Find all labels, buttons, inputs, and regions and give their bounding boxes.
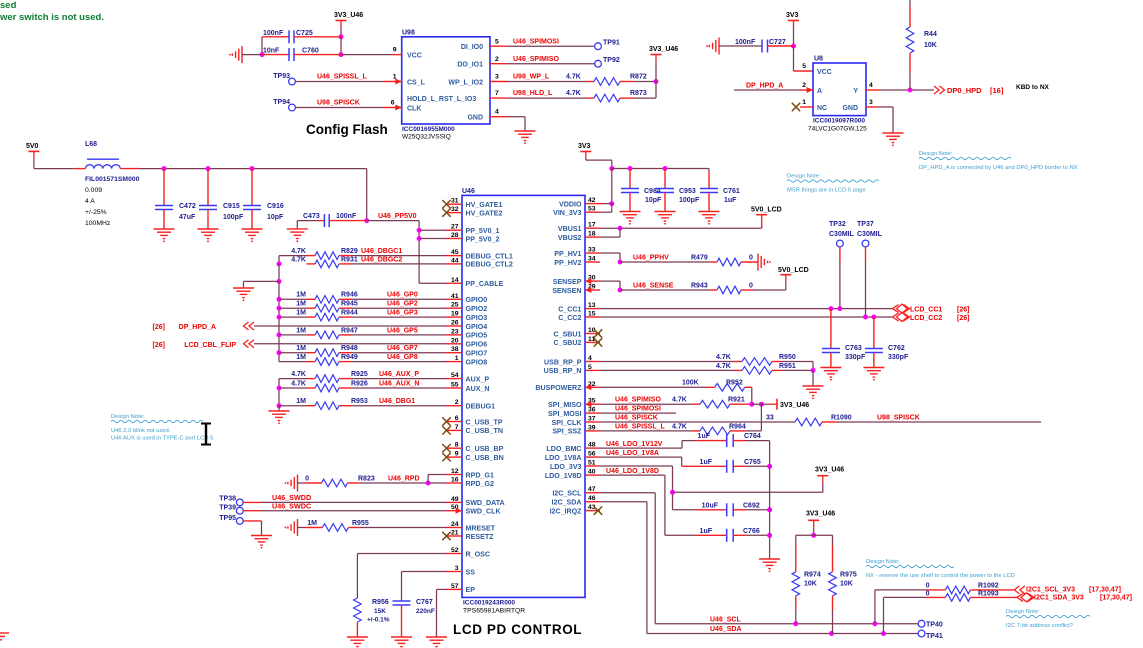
resistor R956 [354,598,362,622]
ic U8 box [813,63,866,116]
svg-text:15: 15 [588,311,596,318]
svg-text:36: 36 [588,407,596,414]
testpoint TP92 [595,60,602,67]
wire bus [278,281,280,361]
svg-text:C692: C692 [743,503,760,510]
svg-text:GPIO6: GPIO6 [466,341,488,349]
svg-text:TP40: TP40 [926,622,943,629]
svg-text:330pF: 330pF [888,354,909,361]
wire cap gnd bus [769,441,771,559]
svg-text:U46_LDO_1V8D: U46_LDO_1V8D [606,468,659,475]
junction [871,315,876,320]
testpoint TP32 [837,240,844,247]
pin 54 AUX_P [446,378,462,380]
svg-text:100pF: 100pF [679,197,700,204]
svg-text:U46_SPISSL_L: U46_SPISSL_L [317,74,368,81]
svg-text:R1090: R1090 [831,414,852,421]
svg-text:56: 56 [588,451,596,458]
net U98_SPISCK [838,421,1041,423]
pin 5 DI_IO0 [490,45,508,47]
wire pullup rail [796,534,833,536]
svg-text:AUX_N: AUX_N [466,385,490,393]
svg-text:KBD to NX: KBD to NX [1016,84,1050,91]
svg-text:16: 16 [451,477,459,484]
svg-text:Design Note:: Design Note: [787,174,821,180]
junction [908,88,913,93]
pin 28 PP_5V0_2 [446,238,462,240]
svg-text:U46_DBGC2: U46_DBGC2 [361,256,402,263]
svg-text:R829: R829 [341,248,358,255]
svg-text:24: 24 [451,521,459,528]
ground [241,46,243,63]
svg-text:R952: R952 [726,380,743,387]
svg-text:Design Note:: Design Note: [866,559,900,565]
pin 8 C_USB_BP [446,447,462,449]
svg-text:44: 44 [451,257,459,264]
net U46_GP3 [352,316,446,318]
svg-text:9: 9 [393,47,397,54]
resistor R921 [664,403,692,405]
svg-text:34: 34 [588,256,596,263]
svg-text:wer switch is not used.: wer switch is not used. [0,12,104,23]
svg-text:U46 2.0 blink not used.: U46 2.0 blink not used. [111,428,171,434]
pin 33 PP_HV1 [585,252,600,254]
pin 36 SPI_MOSI [585,412,600,414]
pin 51 LDO_3V3 [585,465,600,467]
svg-text:5: 5 [588,364,592,371]
junction [767,464,772,469]
wire [366,169,368,221]
pin 48 LDO_BMC [585,447,600,449]
ground [242,228,263,230]
ground [620,211,641,213]
pin 25 GPIO2 [446,307,462,309]
wire [360,527,446,529]
svg-text:U98_SPISCK: U98_SPISCK [317,100,360,107]
svg-text:C473: C473 [303,213,320,220]
wire 5V0 rail [139,168,367,170]
svg-text:100nF: 100nF [336,213,357,220]
pin 3 WP_L_IO2 [490,81,508,83]
testpoint TP39 [236,507,243,514]
svg-text:R955: R955 [352,520,369,527]
svg-text:20: 20 [451,337,459,344]
junction [670,490,675,495]
svg-text:TP92: TP92 [603,57,620,64]
svg-text:GPIO8: GPIO8 [466,358,488,366]
inductor L68 [74,168,85,170]
svg-text:DI_IO0: DI_IO0 [461,44,483,51]
svg-text:I2C_IRQZ: I2C_IRQZ [550,507,583,515]
junction [837,306,842,311]
svg-text:4: 4 [588,355,592,362]
wire [418,221,420,284]
svg-text:R921: R921 [728,397,745,404]
svg-text:PP_5V0_1: PP_5V0_1 [466,227,500,235]
wire VBUS2 [600,236,620,238]
pin 43 I2C_IRQZ [585,510,600,512]
wire pin53 [600,211,612,213]
pin 57 EP [446,588,462,590]
wire U46_SPISSL_L [295,81,384,83]
svg-text:4.7K: 4.7K [672,423,687,430]
svg-text:C765: C765 [744,459,761,466]
pin 44 DEBUG_CTL2 [446,263,462,265]
svg-text:DEBUG1: DEBUG1 [466,403,496,411]
ground [820,367,841,369]
svg-text:28: 28 [451,232,459,239]
wire VBUS1 [600,227,762,229]
wire [865,247,867,262]
ground [426,636,447,638]
pin 4 USB_RP_P [585,361,600,363]
wire [585,159,587,161]
junction [618,260,623,265]
junction [628,166,633,171]
net U46_AUX_N [352,387,446,389]
pin 56 LDO_1V8A [585,456,600,458]
pin 24 MRESET [446,527,462,529]
svg-text:SPI_MOSI: SPI_MOSI [548,410,582,418]
wire I2C_SDA [600,501,647,503]
svg-text:3V3_U46: 3V3_U46 [649,46,678,53]
svg-text:5: 5 [495,39,499,46]
net U46_RPD [360,482,446,484]
ground [198,228,219,230]
svg-text:100nF: 100nF [735,39,756,46]
net U46_PPSV0 [367,220,419,222]
svg-text:R947: R947 [341,327,358,334]
svg-text:GPIO5: GPIO5 [466,332,488,340]
ground [863,367,884,369]
ground [154,228,175,230]
wire [813,527,815,535]
svg-text:TP38: TP38 [219,496,236,503]
net U46_LDO_1V8A [600,456,682,458]
svg-text:3V3_U46: 3V3_U46 [815,467,844,474]
pin 9 C_USB_BN [446,456,462,458]
svg-text:U46_SPISSL_L: U46_SPISSL_L [615,423,666,430]
wire C_CC1 row [600,308,893,310]
svg-text:SWD_CLK: SWD_CLK [466,508,502,516]
ic U46 box [462,195,585,597]
svg-text:NX - reserve the use shelf to: NX - reserve the use shelf to control th… [866,573,1015,579]
svg-text:R943: R943 [691,282,708,289]
svg-text:2: 2 [802,82,806,89]
capacitor C472 [163,169,165,206]
svg-text:RPD_G2: RPD_G2 [466,480,494,488]
capacitor C915 [207,169,209,206]
pin 20 GPIO6 [446,343,462,345]
svg-text:10pF: 10pF [645,197,662,204]
svg-text:0: 0 [749,282,753,289]
svg-text:TP93: TP93 [273,73,290,80]
ground [515,130,536,132]
pin 18 VBUS2 [585,236,600,238]
svg-text:3: 3 [869,99,873,106]
svg-text:C_USB_TN: C_USB_TN [466,427,503,435]
svg-text:R_OSC: R_OSC [466,550,490,558]
svg-text:C_USB_BP: C_USB_BP [466,445,504,453]
junction [277,261,282,266]
svg-text:41: 41 [451,293,459,300]
svg-text:R951: R951 [779,363,796,370]
wire [427,475,429,484]
svg-text:220nF: 220nF [416,608,435,615]
junction [618,226,623,231]
svg-text:57: 57 [451,583,459,590]
partial ground bottom left [0,632,9,634]
svg-text:U46_LDO_1V12V: U46_LDO_1V12V [606,441,663,448]
net U46_SWDD [243,501,261,503]
svg-text:7: 7 [455,424,459,431]
svg-text:3V3: 3V3 [786,12,799,19]
wire U46_SPIMOSI [508,45,595,47]
svg-text:TP91: TP91 [603,40,620,47]
net U46_GP2 [352,307,446,309]
pin 6 C_USB_TP [446,421,462,423]
svg-text:C763: C763 [845,345,862,352]
svg-text:25: 25 [451,302,459,309]
wire C_CC2 row [600,316,893,318]
svg-text:U46_SCL: U46_SCL [710,616,741,623]
svg-text:LDO_1V8A: LDO_1V8A [545,454,582,462]
pin 35 SPI_MISO [585,403,600,405]
svg-text:R949: R949 [341,354,358,361]
pin 1 CS_L [384,81,402,83]
svg-text:[17,30,47]: [17,30,47] [1100,595,1132,602]
svg-text:Config Flash: Config Flash [306,122,388,137]
svg-text:+/-0.1%: +/-0.1% [367,617,390,624]
svg-text:49: 49 [451,496,459,503]
svg-text:DP0_HPD: DP0_HPD [947,86,982,95]
wire pin28 [419,238,446,240]
svg-text:C767: C767 [416,599,433,606]
pin 13 C_CC1 [585,308,600,310]
svg-text:C_SBU2: C_SBU2 [554,339,582,347]
svg-text:31: 31 [451,198,459,205]
svg-text:ICC0016955M000: ICC0016955M000 [402,126,455,133]
svg-text:R950: R950 [779,354,796,361]
svg-text:26: 26 [451,320,459,327]
svg-text:R823: R823 [358,475,375,482]
ground [287,228,308,230]
svg-text:U46: U46 [462,188,475,195]
svg-text:GPIO0: GPIO0 [466,296,488,304]
svg-text:U46_LDO_1V8A: U46_LDO_1V8A [606,450,659,457]
wire U98_HLD_L [508,97,586,99]
wire [279,361,307,363]
junction [417,228,422,233]
capacitor C763 [830,309,832,349]
junction [767,507,772,512]
offpage LCD_CC1 [893,305,899,313]
net U46_GP8 [352,361,446,363]
svg-text:U46_SPIMISO: U46_SPIMISO [615,397,661,404]
svg-text:TP32: TP32 [829,221,846,228]
svg-text:1M: 1M [296,292,306,299]
wire U98_WP_L [508,81,586,83]
capacitor C953 [664,169,666,189]
junction [417,236,422,241]
svg-text:AUX_P: AUX_P [466,375,490,383]
testpoint TP94 [289,104,296,111]
pin 34 PP_HV2 [585,261,600,263]
svg-text:53: 53 [588,206,596,213]
wire SS [402,571,447,573]
svg-text:U46_SWDC: U46_SWDC [272,502,311,511]
net U46_GP0 [352,298,446,300]
svg-text:33: 33 [588,247,596,254]
svg-text:45: 45 [451,249,459,256]
svg-text:VIN_3V3: VIN_3V3 [553,209,581,217]
wire [279,255,307,257]
wire R_OSC [357,553,446,555]
offpage LCD_CC2 [893,313,899,321]
wire [681,441,683,449]
svg-text:USB_RP_N: USB_RP_N [544,367,582,375]
resistor R823 [298,482,306,484]
junction [811,533,816,538]
capacitor C765 [682,465,727,467]
pin 21 RESETZ [446,535,462,537]
wire [242,54,262,56]
wire [279,334,307,336]
pin 9 VCC [391,54,402,56]
svg-text:1M: 1M [296,327,306,334]
svg-text:1M: 1M [296,345,306,352]
resistor R873 [586,97,594,99]
svg-text:GPIO3: GPIO3 [466,314,488,322]
svg-text:1: 1 [455,355,459,362]
capacitor C766 [665,534,695,536]
svg-text:VBUS1: VBUS1 [558,225,582,233]
svg-text:C_USB_BN: C_USB_BN [466,454,504,462]
svg-text:Design Note:: Design Note: [919,151,953,157]
svg-text:R956: R956 [372,599,389,606]
pin 23 GPIO5 [446,334,462,336]
wire [793,27,795,46]
net U46_PPHV [620,261,709,263]
pin 19 GPIO3 [446,316,462,318]
junction [277,315,282,320]
svg-text:6: 6 [391,100,395,107]
svg-text:Y: Y [853,88,858,95]
svg-text:TP37: TP37 [857,221,874,228]
svg-text:+/-25%: +/-25% [85,209,107,216]
svg-text:GND: GND [467,115,483,122]
ground [759,558,780,560]
pin 38 GPIO7 [446,352,462,354]
net U46_AUX_P [352,378,446,380]
svg-text:[26]: [26] [957,306,969,313]
wire [634,81,656,83]
junction [260,52,265,57]
junction [426,481,431,486]
ground [297,475,299,492]
ground [757,254,759,271]
wire [839,247,841,262]
wire [279,298,307,300]
wire [782,361,813,363]
svg-text:3: 3 [495,74,499,81]
svg-text:C725: C725 [296,30,313,37]
pin 1 GPIO8 [446,361,462,363]
svg-text:DEBUG_CTL1: DEBUG_CTL1 [466,252,513,260]
svg-text:L68: L68 [85,141,97,148]
pin 50 SWD_CLK [446,510,462,512]
svg-text:0: 0 [305,475,309,482]
svg-text:5: 5 [802,63,806,70]
svg-text:USB_RP_P: USB_RP_P [544,358,582,366]
svg-text:R1093: R1093 [978,591,999,598]
junction [339,34,344,39]
svg-text:LDO_3V3: LDO_3V3 [550,463,582,471]
svg-text:C_USB_TP: C_USB_TP [466,418,503,426]
svg-text:U46_RPD: U46_RPD [388,475,420,482]
svg-text:51: 51 [588,460,596,467]
svg-text:1M: 1M [296,398,306,405]
svg-text:VDDIO: VDDIO [559,200,582,208]
svg-text:ICC0019097R000: ICC0019097R000 [813,118,865,125]
svg-text:SENSEN: SENSEN [552,287,581,295]
svg-text:C_SBU1: C_SBU1 [554,330,582,338]
svg-text:LCD_CBL_FLIP: LCD_CBL_FLIP [184,342,236,349]
svg-text:0: 0 [926,591,930,598]
svg-text:C30MIL: C30MIL [829,231,855,238]
wire I2C_SCL [600,492,655,494]
svg-text:10pF: 10pF [267,214,284,221]
svg-text:U46_GP7: U46_GP7 [387,345,418,352]
svg-text:C762: C762 [888,345,905,352]
svg-text:4.7K: 4.7K [566,74,581,81]
svg-text:U46_AUX_P: U46_AUX_P [379,371,419,378]
svg-text:U46_SPIMISO: U46_SPIMISO [513,56,559,63]
svg-text:CS_L: CS_L [407,80,426,87]
pin 55 AUX_N [446,387,462,389]
wire [261,37,263,55]
svg-text:R964: R964 [729,423,746,430]
net U46_SDA [647,633,918,635]
wire [279,378,307,380]
svg-text:23: 23 [451,328,459,335]
junction [609,166,614,171]
pin 10 C_SBU1 [585,333,600,335]
pin 42 VDDIO [585,203,600,205]
svg-text:LCD_CC1: LCD_CC1 [910,306,942,313]
capacitor C984 [629,169,631,189]
testpoint TP93 [289,78,296,85]
svg-text:3V3: 3V3 [578,143,591,150]
svg-text:52: 52 [451,547,459,554]
svg-text:1M: 1M [296,310,306,317]
svg-text:U8: U8 [814,56,823,63]
net U46_SPIMISO [600,403,664,405]
svg-text:6: 6 [455,415,459,422]
svg-text:U98_WP_L: U98_WP_L [513,74,550,81]
pin 53 VIN_3V3 [585,211,600,213]
svg-text:0: 0 [926,582,930,589]
capacitor C692 [673,509,696,511]
svg-text:U46_GP3: U46_GP3 [387,310,418,317]
svg-text:U46_DBG1: U46_DBG1 [379,398,415,405]
svg-text:VCC: VCC [817,69,832,76]
svg-text:1uF: 1uF [700,528,713,535]
pin 52 R_OSC [446,553,462,555]
net U46_GP7 [352,352,446,354]
ground [297,519,299,536]
wire U8 gnd [866,106,878,108]
